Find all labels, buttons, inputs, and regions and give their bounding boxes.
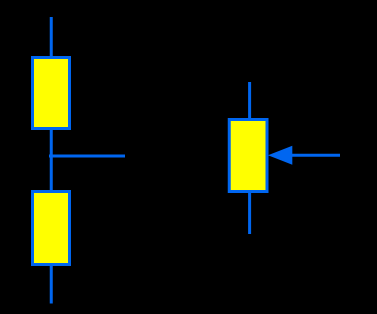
wire tap at node between R1 and R2	[49, 155, 125, 158]
potentiometer RV1 body	[229, 120, 267, 192]
wire between R1 and R2	[50, 129, 53, 191]
wire top lead of R1	[50, 17, 53, 58]
wire bottom lead of R2	[50, 265, 53, 304]
resistor R1	[33, 58, 70, 129]
wire wiper lead of RV1	[291, 154, 340, 157]
wire bottom lead of RV1	[248, 192, 251, 234]
resistor R2	[33, 192, 70, 265]
wire top lead of potentiometer RV1	[248, 82, 251, 119]
wiper arrowhead of RV1	[268, 146, 292, 165]
